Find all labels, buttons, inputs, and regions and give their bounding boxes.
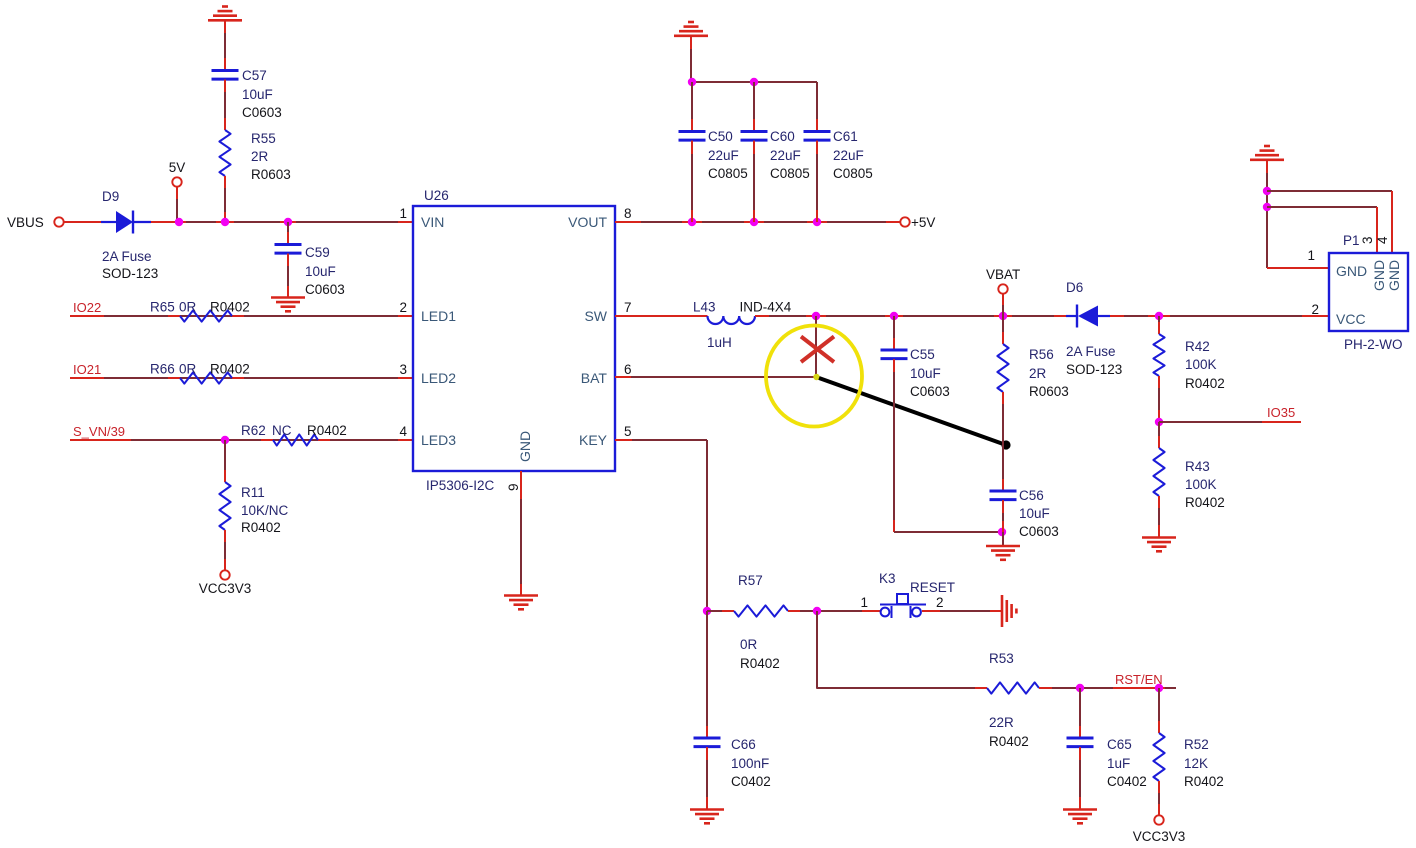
svg-text:R57: R57 — [738, 573, 763, 588]
svg-text:C61: C61 — [833, 129, 858, 144]
wire — [1002, 294, 1004, 316]
wire — [1267, 206, 1377, 208]
svg-text:22uF: 22uF — [833, 148, 864, 163]
wire — [615, 439, 707, 441]
ground — [674, 22, 708, 36]
svg-text:R52: R52 — [1184, 737, 1209, 752]
svg-text:C0805: C0805 — [770, 166, 810, 181]
svg-text:R42: R42 — [1185, 339, 1210, 354]
node — [1155, 312, 1163, 320]
wire — [151, 221, 413, 223]
svg-text:L43: L43 — [693, 300, 716, 315]
svg-text:R0402: R0402 — [740, 656, 780, 671]
inductor L43 — [708, 316, 755, 324]
svg-text:IND-4X4: IND-4X4 — [740, 300, 792, 315]
svg-text:U26: U26 — [424, 188, 449, 203]
svg-text:RST/EN: RST/EN — [1115, 672, 1163, 687]
wire — [224, 21, 226, 70]
svg-text:100nF: 100nF — [731, 756, 769, 771]
wire — [1002, 316, 1004, 344]
wire — [1267, 267, 1329, 269]
port VCC3V3 — [1154, 815, 1163, 824]
node — [1263, 187, 1271, 195]
wire — [753, 141, 755, 222]
svg-text:2A Fuse: 2A Fuse — [102, 249, 152, 264]
svg-text:LED3: LED3 — [421, 432, 456, 448]
svg-text:2R: 2R — [1029, 366, 1047, 381]
svg-text:1uH: 1uH — [707, 335, 732, 350]
node — [688, 78, 696, 86]
svg-text:2: 2 — [936, 595, 944, 610]
svg-text:3: 3 — [1360, 236, 1375, 244]
svg-text:RESET: RESET — [910, 580, 955, 595]
svg-text:GND: GND — [517, 431, 533, 462]
node — [221, 436, 229, 444]
svg-text:1: 1 — [399, 206, 407, 221]
svg-text:C55: C55 — [910, 347, 935, 362]
svg-text:2: 2 — [1311, 302, 1319, 317]
svg-text:LED1: LED1 — [421, 308, 456, 324]
svg-text:SOD-123: SOD-123 — [1066, 362, 1122, 377]
wire — [64, 221, 101, 223]
svg-text:R0402: R0402 — [210, 362, 250, 377]
wire — [70, 315, 413, 317]
wire — [753, 82, 755, 131]
svg-text:0R: 0R — [740, 637, 758, 652]
svg-text:R0603: R0603 — [251, 167, 291, 182]
svg-text:R0402: R0402 — [989, 734, 1029, 749]
wire — [615, 221, 900, 223]
svg-text:LED2: LED2 — [421, 370, 456, 386]
capacitor C56 — [990, 490, 1017, 493]
svg-text:C0805: C0805 — [708, 166, 748, 181]
ground — [690, 810, 724, 824]
svg-text:22uF: 22uF — [770, 148, 801, 163]
wire — [1039, 687, 1176, 689]
node — [812, 312, 820, 320]
wire — [1158, 316, 1160, 334]
svg-text:R66: R66 — [150, 362, 175, 377]
wire — [1079, 688, 1081, 738]
svg-text:6: 6 — [624, 362, 632, 377]
svg-text:10K/NC: 10K/NC — [241, 503, 289, 518]
capacitor C50 — [679, 130, 706, 133]
node — [998, 528, 1006, 536]
resistor R65 — [180, 310, 232, 321]
svg-text:GND: GND — [1371, 260, 1387, 291]
svg-text:10uF: 10uF — [305, 264, 336, 279]
svg-text:22uF: 22uF — [708, 148, 739, 163]
node — [1155, 418, 1163, 426]
wire — [707, 610, 734, 612]
svg-text:C0402: C0402 — [1107, 774, 1147, 789]
capacitor C65 — [1067, 737, 1094, 740]
wire — [615, 376, 816, 378]
ground — [986, 546, 1020, 560]
resistor R55 — [219, 130, 230, 176]
diode D9 — [116, 211, 133, 233]
svg-text:4: 4 — [399, 424, 407, 439]
svg-text:1uF: 1uF — [1107, 756, 1130, 771]
wire — [1158, 376, 1160, 422]
svg-text:2A Fuse: 2A Fuse — [1066, 344, 1116, 359]
wire — [706, 747, 708, 809]
wire — [922, 610, 1002, 612]
wire — [287, 222, 289, 244]
svg-text:SOD-123: SOD-123 — [102, 266, 158, 281]
capacitor C59 — [275, 243, 302, 246]
svg-text:R0402: R0402 — [307, 423, 347, 438]
wire — [1158, 688, 1160, 733]
svg-text:VBUS: VBUS — [7, 215, 44, 230]
capacitor C60 — [741, 130, 768, 133]
ground — [504, 596, 538, 610]
wire — [788, 610, 880, 612]
svg-text:1: 1 — [1307, 248, 1315, 263]
svg-text:D6: D6 — [1066, 280, 1083, 295]
wire — [1158, 496, 1160, 537]
svg-text:C66: C66 — [731, 737, 756, 752]
wire — [691, 141, 693, 222]
svg-text:7: 7 — [624, 300, 632, 315]
wire — [1110, 315, 1329, 317]
svg-text:4: 4 — [1375, 236, 1390, 244]
wire — [1266, 160, 1268, 268]
svg-text:IP5306-I2C: IP5306-I2C — [426, 478, 495, 493]
wire — [224, 530, 226, 570]
svg-text:0R: 0R — [179, 362, 197, 377]
svg-text:R62: R62 — [241, 423, 266, 438]
svg-text:GND: GND — [1386, 260, 1402, 291]
svg-text:VCC3V3: VCC3V3 — [1133, 829, 1186, 844]
ground — [1063, 810, 1097, 824]
svg-text:R56: R56 — [1029, 347, 1054, 362]
svg-text:C60: C60 — [770, 129, 795, 144]
resistor R66 — [180, 372, 232, 383]
svg-text:100K: 100K — [1185, 357, 1217, 372]
svg-text:BAT: BAT — [581, 370, 608, 386]
wire — [1158, 422, 1160, 448]
svg-text:C57: C57 — [242, 68, 267, 83]
svg-text:C0603: C0603 — [910, 384, 950, 399]
wire — [1002, 500, 1004, 532]
svg-text:+5V: +5V — [911, 215, 935, 230]
wire — [706, 611, 708, 738]
svg-text:10uF: 10uF — [1019, 506, 1050, 521]
svg-text:10uF: 10uF — [910, 366, 941, 381]
capacitor C57 — [212, 69, 239, 72]
wire — [893, 316, 895, 350]
svg-text:VCC: VCC — [1336, 311, 1366, 327]
ground — [1250, 146, 1284, 160]
svg-text:R0402: R0402 — [1184, 774, 1224, 789]
svg-text:10uF: 10uF — [242, 87, 273, 102]
wire — [70, 439, 413, 441]
diode D6 2A Fuse — [1066, 315, 1077, 317]
svg-text:3: 3 — [399, 362, 407, 377]
svg-text:R65: R65 — [150, 300, 175, 315]
node — [1076, 684, 1084, 692]
connector P1 PH-2-WO — [1329, 253, 1408, 331]
svg-text:5V: 5V — [169, 160, 186, 175]
ground — [271, 298, 305, 312]
wire — [817, 611, 987, 688]
svg-text:VOUT: VOUT — [568, 214, 607, 230]
annotation yellow circle — [766, 326, 862, 427]
wire — [1158, 781, 1160, 815]
svg-text:2R: 2R — [251, 149, 269, 164]
svg-text:0R: 0R — [179, 300, 197, 315]
svg-text:KEY: KEY — [579, 432, 608, 448]
wire — [691, 81, 817, 83]
wire — [224, 176, 226, 222]
svg-text:5: 5 — [624, 424, 632, 439]
svg-text:8: 8 — [624, 206, 632, 221]
wire — [755, 315, 1066, 317]
wire — [691, 82, 693, 131]
svg-text:IO21: IO21 — [73, 362, 101, 377]
svg-text:C0603: C0603 — [305, 282, 345, 297]
wire — [815, 316, 817, 377]
wire — [690, 36, 692, 82]
svg-text:VCC3V3: VCC3V3 — [199, 581, 252, 596]
wire — [893, 359, 895, 532]
svg-text:C50: C50 — [708, 129, 733, 144]
ground — [1002, 595, 1016, 627]
svg-text:C0603: C0603 — [1019, 524, 1059, 539]
resistor R43 — [1153, 448, 1164, 496]
wire — [70, 377, 413, 379]
resistor R62 — [273, 434, 318, 445]
svg-text:1: 1 — [860, 595, 868, 610]
node — [813, 607, 821, 615]
ground — [208, 7, 242, 21]
resistor R42 — [1153, 334, 1164, 376]
port VCC3V3 — [220, 570, 229, 579]
resistor R11 — [219, 482, 230, 530]
svg-text:GND: GND — [1336, 263, 1367, 279]
wire — [1002, 392, 1004, 491]
svg-text:C0402: C0402 — [731, 774, 771, 789]
resistor R53 — [987, 682, 1039, 693]
svg-text:D9: D9 — [102, 189, 119, 204]
capacitor C61 — [804, 130, 831, 133]
wire — [1267, 190, 1392, 192]
svg-text:R0402: R0402 — [1185, 495, 1225, 510]
node — [688, 218, 696, 226]
svg-text:S_VN/39: S_VN/39 — [73, 424, 125, 439]
svg-text:R53: R53 — [989, 651, 1014, 666]
svg-text:K3: K3 — [879, 571, 896, 586]
svg-text:C59: C59 — [305, 245, 330, 260]
svg-text:2: 2 — [399, 300, 407, 315]
ground — [1142, 538, 1176, 552]
wire — [224, 440, 226, 482]
wire — [224, 80, 226, 130]
svg-text:R0603: R0603 — [1029, 384, 1069, 399]
resistor R52 — [1153, 733, 1164, 781]
svg-text:P1: P1 — [1343, 233, 1360, 248]
svg-text:R0402: R0402 — [1185, 376, 1225, 391]
svg-text:VIN: VIN — [421, 214, 444, 230]
svg-text:12K: 12K — [1184, 756, 1208, 771]
svg-text:C65: C65 — [1107, 737, 1132, 752]
node — [703, 607, 711, 615]
wire — [1159, 421, 1301, 423]
svg-text:R55: R55 — [251, 131, 276, 146]
resistor R56 — [997, 344, 1008, 392]
wire — [176, 187, 178, 222]
wire — [615, 315, 708, 317]
annotation black pointer line — [819, 378, 1006, 445]
resistor R57 — [734, 605, 788, 616]
svg-text:22R: 22R — [989, 715, 1014, 730]
svg-text:C56: C56 — [1019, 488, 1044, 503]
port +5V — [900, 217, 909, 226]
svg-text:SW: SW — [584, 308, 607, 324]
capacitor C55 — [881, 349, 908, 352]
capacitor C66 — [694, 737, 721, 740]
svg-text:VBAT: VBAT — [986, 267, 1020, 282]
svg-text:100K: 100K — [1185, 477, 1217, 492]
svg-text:C0805: C0805 — [833, 166, 873, 181]
svg-text:R43: R43 — [1185, 459, 1210, 474]
svg-text:NC: NC — [272, 423, 292, 438]
svg-text:R11: R11 — [241, 485, 265, 500]
svg-text:IO22: IO22 — [73, 300, 101, 315]
svg-text:PH-2-WO: PH-2-WO — [1344, 337, 1403, 352]
svg-text:9: 9 — [506, 483, 521, 491]
svg-text:R0402: R0402 — [241, 520, 281, 535]
svg-text:IO35: IO35 — [1267, 405, 1295, 420]
node — [175, 218, 183, 226]
wire — [287, 254, 289, 297]
wire — [1002, 532, 1004, 546]
svg-text:C0603: C0603 — [242, 105, 282, 120]
wire — [520, 471, 522, 595]
wire — [1079, 747, 1081, 809]
op-amp U26 IP5306-I2C — [413, 206, 615, 471]
annotation wire-end dot — [813, 374, 819, 380]
wire — [816, 141, 818, 222]
annotation red X — [801, 337, 834, 363]
svg-text:R0402: R0402 — [210, 300, 250, 315]
